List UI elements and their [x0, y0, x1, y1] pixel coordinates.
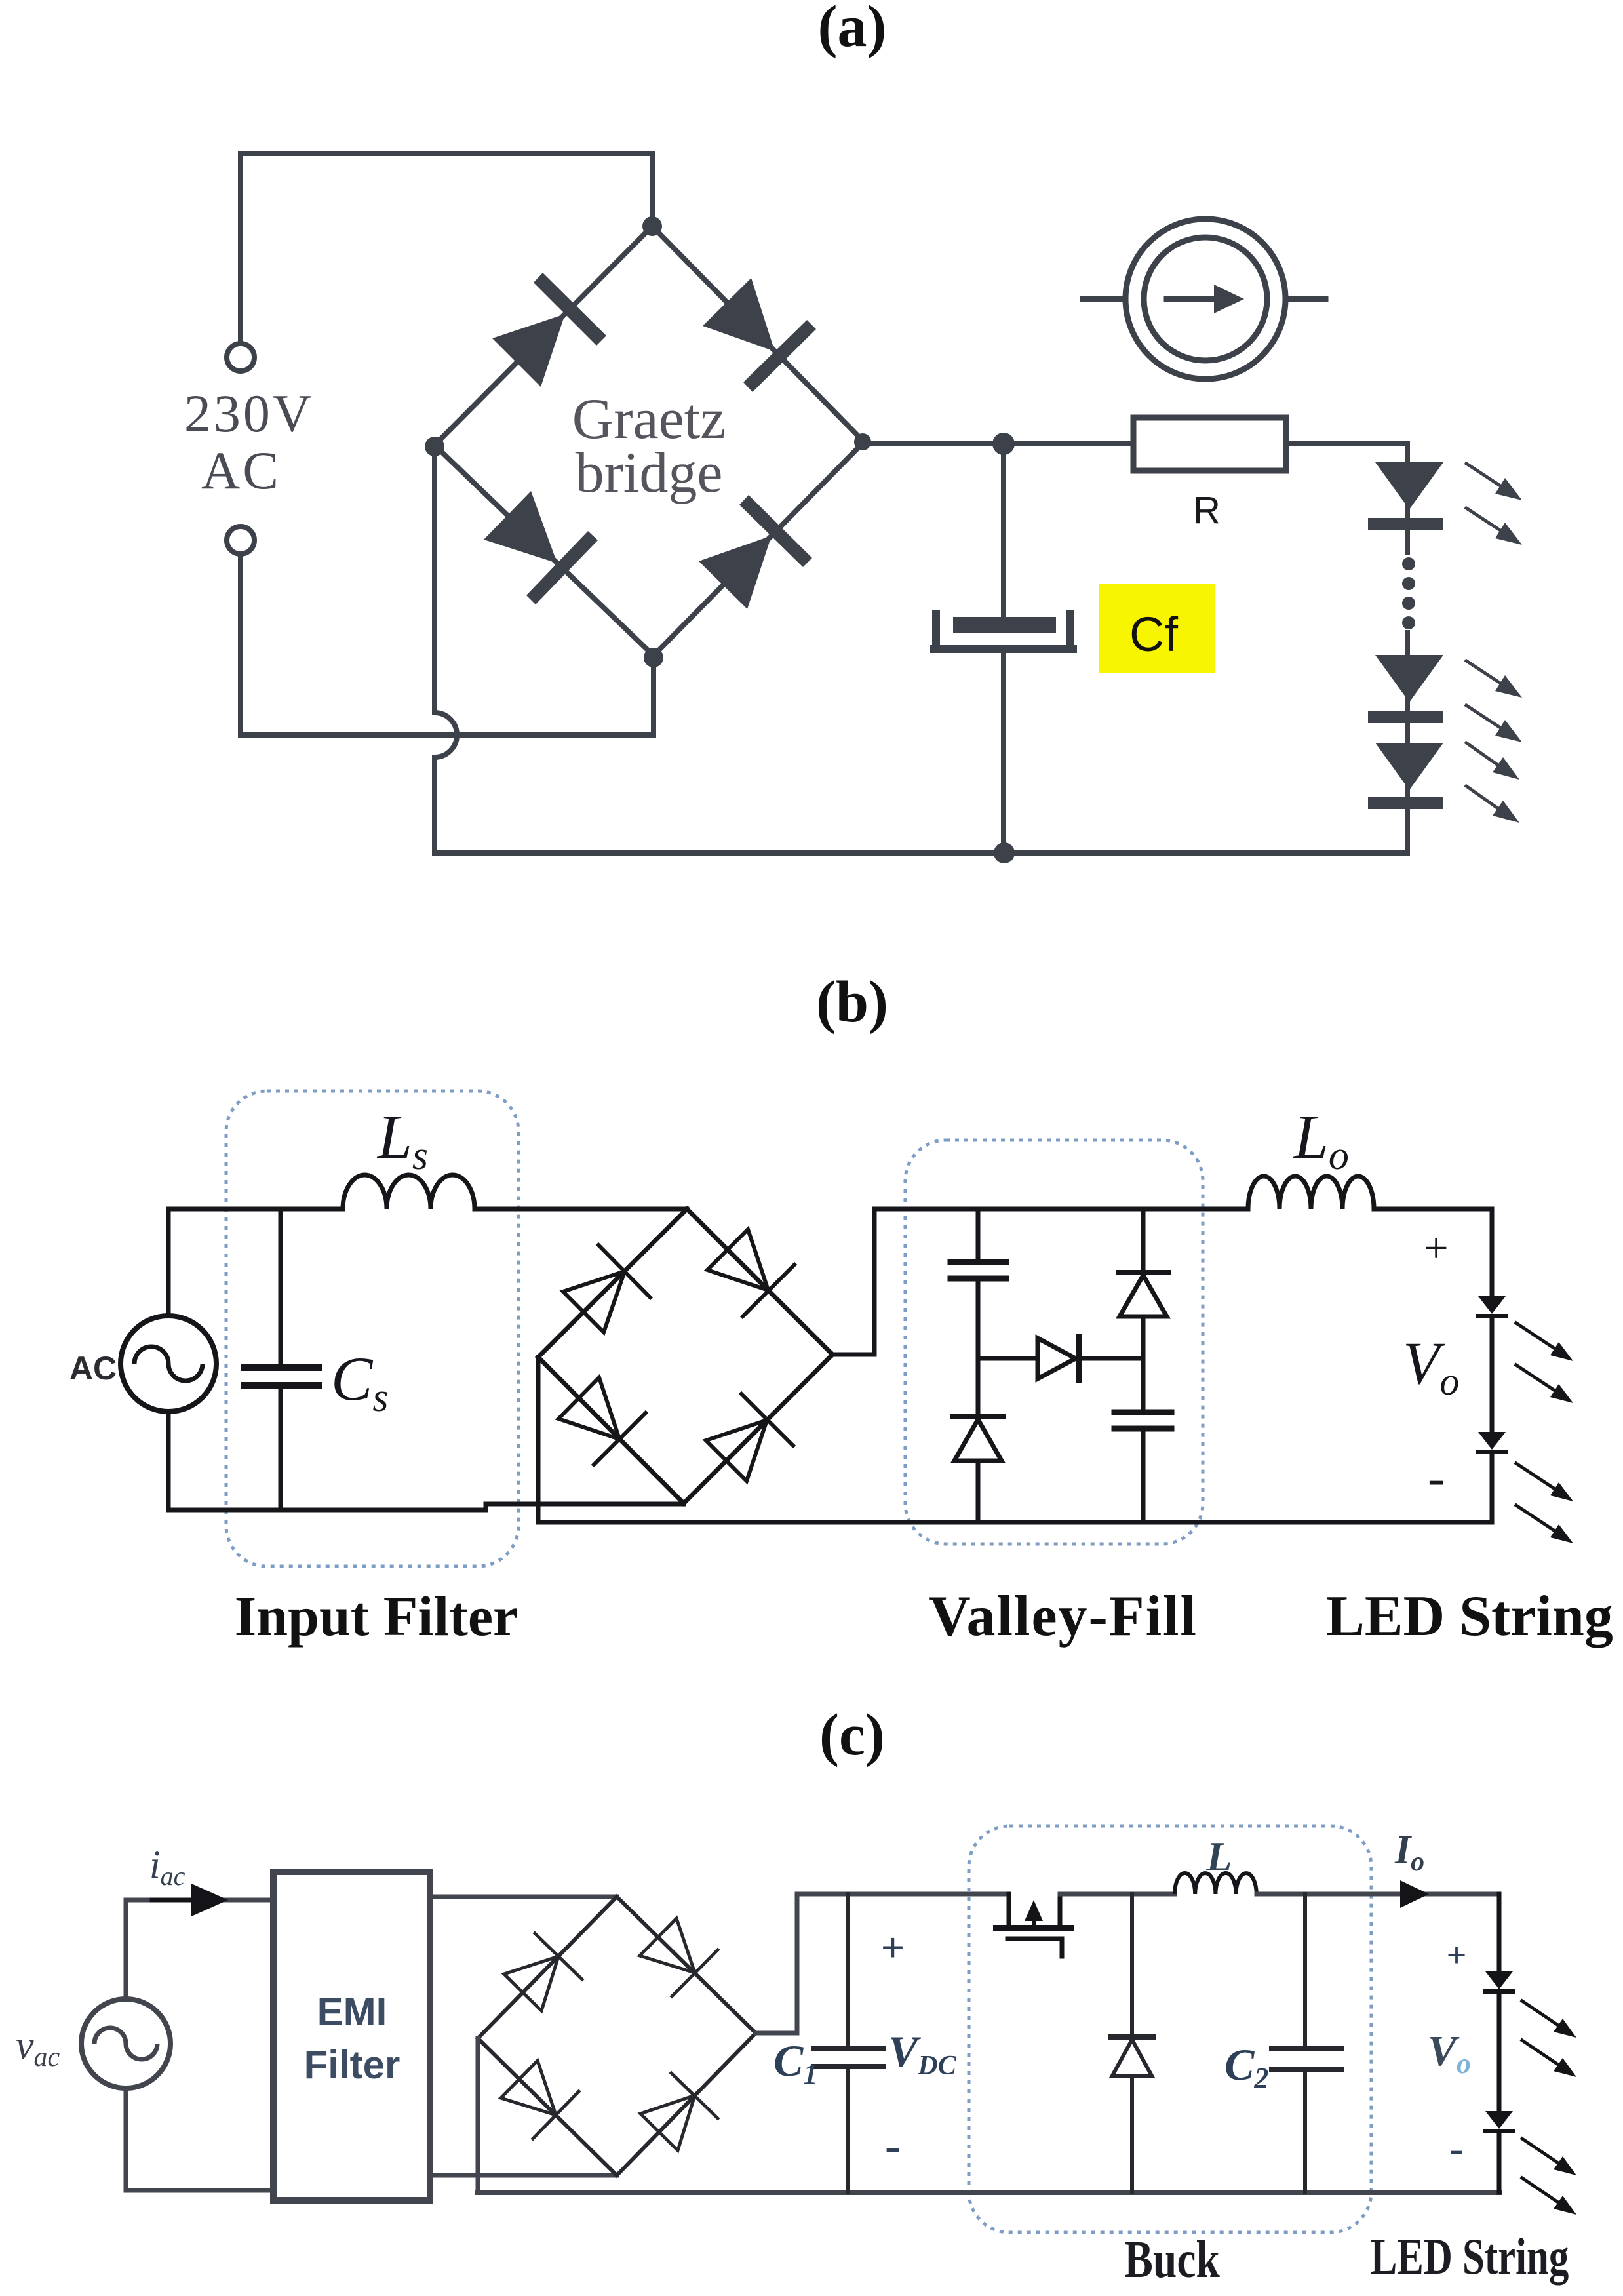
dashed box Buck [969, 1826, 1371, 2232]
wire positive rail (a) [864, 441, 1133, 446]
wire bridge left to bottom rail (b) [536, 1357, 541, 1522]
svg-text:-: - [885, 2120, 901, 2172]
diode D9 (VF left lower) [952, 1414, 1004, 1419]
svg-text:(c): (c) [819, 1703, 885, 1768]
AC source vac [81, 1999, 170, 2088]
terminal upper AC [227, 344, 254, 371]
light arrows LED1 (b) [1516, 1323, 1573, 1361]
wire bridge right riser (b) [832, 1209, 1248, 1355]
capacitor Cf cup plate [930, 610, 1077, 649]
label LED String (c) [1371, 2229, 1569, 2286]
dashed box Input Filter [226, 1091, 518, 1566]
svg-text:AC: AC [69, 1350, 117, 1387]
svg-text:-: - [1450, 2127, 1464, 2171]
diode D6 (bridge b top-right) [707, 1229, 794, 1316]
wire LED string mid (a) [1405, 633, 1410, 853]
diode D5 (bridge b top-left) [563, 1245, 650, 1332]
LED2 (c) [1483, 2111, 1515, 2133]
bridge arm top-right (b) [687, 1209, 832, 1355]
capacitor C VF-right [1114, 1410, 1171, 1415]
wire EMI to bridge top (c) [430, 1895, 617, 1899]
bridge arm top-left (b) [538, 1209, 687, 1357]
arrow iac [191, 1884, 228, 1916]
wire VF left branch upper [976, 1209, 981, 1260]
svg-text:230V: 230V [184, 384, 314, 443]
wire Cf branch bottom [1001, 653, 1006, 853]
svg-text:R: R [1193, 489, 1221, 532]
capacitor C2 [1272, 2046, 1341, 2051]
wire AC to top rail (b) [168, 1209, 343, 1316]
svg-text:LED String: LED String [1371, 2229, 1569, 2286]
wire bridge right riser (c) [756, 1894, 1009, 2033]
svg-text:Filter: Filter [304, 2043, 401, 2087]
wire LED mid (c) [1497, 1994, 1502, 2111]
wire AC to bottom rail (b) [168, 1412, 486, 1510]
diode D14 (bridge c bottom-left) [501, 2061, 579, 2139]
node bridge right [854, 433, 871, 450]
node bridge bottom [644, 648, 663, 667]
diode D7 (bridge b bottom-left) [558, 1377, 646, 1465]
wire freewheel branch (c) [1130, 1894, 1134, 2035]
wire VF middle right [1079, 1356, 1143, 1361]
wire bottom rail (c) [478, 2190, 1499, 2195]
diode D11 (VF right upper) [1118, 1270, 1168, 1275]
wire vac to EMI top [126, 1900, 273, 1999]
diode D12 (bridge c top-left) [504, 1933, 582, 2011]
wire C2 branch (c) [1303, 1894, 1307, 2046]
svg-text:LED String: LED String [1326, 1585, 1613, 1648]
inductor L (c) [1175, 1873, 1257, 1894]
diode D15 (bridge c bottom-right) [640, 2073, 718, 2150]
light arrows LED2 (a) [1466, 661, 1522, 698]
capacitor C1 [814, 2046, 883, 2051]
node junction Cf top [992, 433, 1015, 455]
LED1 (b) [1476, 1296, 1508, 1318]
inductor Ls [343, 1175, 475, 1209]
wire bottom rail (b) [538, 1520, 1492, 1525]
wire LED bottom (b) [1490, 1454, 1495, 1522]
current source CS1 [1125, 219, 1285, 379]
svg-text:(b): (b) [816, 970, 888, 1035]
light arrows LED1 (c) [1522, 2001, 1576, 2038]
dashed box Valley-Fill [905, 1140, 1203, 1544]
bridge arm top-right [652, 226, 864, 442]
bridge arm bottom-right [654, 442, 864, 656]
diode D4 (bridge a bottom-right) [699, 495, 812, 609]
wire Cs branch (b) [279, 1209, 283, 1364]
resistor R [1133, 418, 1286, 471]
wire LED mid (b) [1490, 1318, 1495, 1432]
bridge arm bottom-right (c) [617, 2033, 756, 2175]
svg-text:Buck: Buck [1124, 2230, 1220, 2289]
wire bridge left drop (c) [476, 2038, 480, 2192]
node bridge top [642, 216, 662, 236]
EMI filter box [273, 1872, 430, 2200]
wire bridge left node down (with hop) [435, 453, 457, 853]
AC source (b) [121, 1316, 216, 1412]
bridge arm bottom-left [435, 445, 654, 656]
capacitor Cs [244, 1364, 319, 1371]
highlight box Cf [1099, 584, 1215, 673]
svg-text:+: + [1447, 1935, 1467, 1975]
wire bottom rail (a) [435, 850, 1407, 856]
bridge arm top-left (c) [478, 1897, 617, 2038]
node bridge left [425, 437, 444, 456]
diode D1 (bridge a top-left) [492, 273, 606, 387]
svg-text:EMI: EMI [317, 1990, 387, 2034]
svg-text:bridge: bridge [576, 441, 723, 505]
terminal lower AC [227, 526, 254, 554]
diode D3 (bridge a bottom-left) [484, 491, 598, 604]
wire L to LED (c) [1257, 1892, 1499, 1897]
light arrows LED1 (a) [1466, 464, 1522, 500]
wire top rail Ls to bridge (b) [475, 1207, 687, 1212]
bridge arm bottom-left (c) [478, 2038, 617, 2175]
svg-text:-: - [1428, 1449, 1445, 1506]
wire LED bottom (c) [1497, 2133, 1502, 2192]
svg-text:L: L [1205, 1833, 1232, 1880]
LED string LED3 (a) [1375, 743, 1443, 790]
wire VF right branch lower [1141, 1431, 1146, 1522]
wire Cf branch top [1001, 444, 1006, 617]
wire LED string top (a) [1405, 444, 1410, 553]
wire bottom step (b) [486, 1503, 684, 1510]
svg-text:Valley-Fill: Valley-Fill [929, 1585, 1198, 1648]
diode D8 (bridge b bottom-right) [706, 1394, 793, 1481]
LED1 (c) [1483, 1971, 1515, 1994]
inductor Lo [1248, 1176, 1374, 1209]
wire top rail to LED (b) [1374, 1209, 1492, 1296]
svg-text:AC: AC [201, 441, 281, 500]
LED string LED2 (a) [1375, 655, 1443, 702]
LED string LED1 (a) [1375, 462, 1443, 509]
light arrows LED3 (a) [1466, 743, 1519, 780]
diode D13 (bridge c top-right) [640, 1918, 718, 1996]
diode D16 (freewheel) [1110, 2034, 1154, 2040]
wire freewheel lower (c) [1130, 2076, 1134, 2192]
wire C1 branch (c) [846, 1894, 850, 2046]
transistor Q1 (MOSFET) [1007, 1894, 1011, 1924]
capacitor Cf top plate [953, 617, 1056, 633]
bridge arm top-left [435, 226, 652, 445]
arrow Io [1400, 1880, 1429, 1908]
wire VF middle left [978, 1356, 1038, 1361]
svg-text:+: + [1424, 1224, 1448, 1272]
svg-text:+: + [881, 1924, 905, 1971]
svg-text:Cf: Cf [1129, 607, 1178, 662]
bridge arm bottom-left (b) [538, 1357, 684, 1503]
wire EMI to bridge bottom (c) [430, 2173, 617, 2178]
wire AC hot lead [238, 153, 243, 343]
diode D2 (bridge a top-right) [703, 278, 816, 392]
LED2 (b) [1476, 1432, 1508, 1454]
wire LED string right (c) [1497, 1894, 1502, 1971]
wire lower AC lead to bridge bottom [241, 555, 654, 735]
wire top from AC to bridge top [241, 153, 652, 226]
light arrows LED2 (b) [1516, 1463, 1573, 1501]
wire VF right branch mid [1141, 1316, 1146, 1410]
wire vac to EMI bottom [126, 2088, 273, 2190]
bridge arm top-right (c) [617, 1897, 756, 2033]
label Buck [1124, 2230, 1220, 2289]
wire MOSFET to L (c) [1060, 1892, 1175, 1897]
light arrows LED2 (c) [1522, 2139, 1576, 2175]
node junction Cf bottom [994, 842, 1015, 863]
dotted continuation (a) [1402, 557, 1415, 570]
svg-text:(a): (a) [818, 0, 887, 59]
wire VF left branch mid [976, 1281, 981, 1415]
diode D10 (VF middle) [1038, 1338, 1076, 1379]
capacitor C VF-left [950, 1259, 1006, 1265]
svg-text:Input Filter: Input Filter [235, 1585, 518, 1648]
bridge arm bottom-right (b) [684, 1355, 832, 1503]
